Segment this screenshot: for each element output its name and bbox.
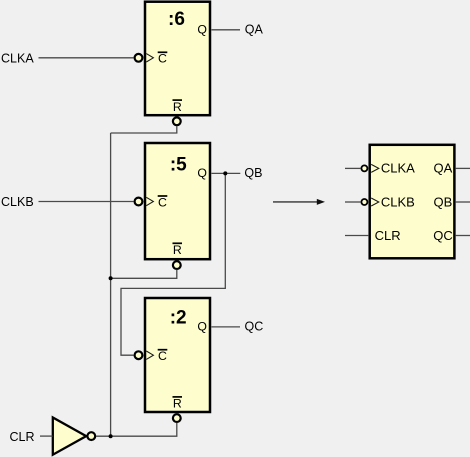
symbol pin QA label <box>434 161 453 176</box>
svg-text:QB: QB <box>244 166 262 180</box>
wire symbol CLKA input <box>345 167 361 169</box>
symbol pin QC label <box>433 228 453 243</box>
wire CLKB to :5 clock <box>39 201 134 203</box>
wire symbol QB output <box>456 201 470 203</box>
label CLKA <box>1 51 34 65</box>
flip-flop :2 label <box>170 308 187 329</box>
svg-text:R: R <box>173 243 182 257</box>
symbol pin CLKA label <box>371 161 415 176</box>
flip-flop :2 pin R label <box>173 397 183 411</box>
flip-flop :2 clock input bubble <box>135 351 143 359</box>
svg-text::6: :6 <box>168 9 185 30</box>
symbol CLKA input bubble <box>361 165 367 171</box>
label QB <box>244 166 262 180</box>
label CLKB <box>1 195 34 209</box>
svg-text:QC: QC <box>245 320 264 334</box>
svg-text:QC: QC <box>433 228 453 243</box>
flip-flop :5 label <box>170 155 187 176</box>
svg-text:CLR: CLR <box>375 228 401 243</box>
flip-flop :5 pin R label <box>173 243 183 257</box>
wire CLKA to :6 clock <box>39 57 134 59</box>
wire CLR to inverter input <box>40 435 53 437</box>
junction dot CLR net at inverter output <box>109 434 113 438</box>
symbol pin QB label <box>434 194 453 209</box>
junction dot QB node <box>223 171 227 175</box>
label CLR <box>10 430 35 444</box>
label QA <box>245 22 264 36</box>
wire CLR net vertical <box>110 133 112 436</box>
svg-text:Q: Q <box>197 23 207 37</box>
wire symbol CLKB input <box>345 201 361 203</box>
svg-text:CLKA: CLKA <box>381 161 415 176</box>
wire symbol QA output <box>456 167 470 169</box>
wire :5 reset stem to CLR net <box>111 270 177 279</box>
svg-text:CLR: CLR <box>10 430 35 444</box>
symbol CLKB input bubble <box>361 199 367 205</box>
inverter U4 output bubble <box>87 432 95 440</box>
flip-flop :2 pin C label (inverted clock) <box>146 349 167 363</box>
flip-flop :2 reset bubble <box>173 414 181 422</box>
flip-flop :6 pin Q label <box>197 23 207 37</box>
svg-text:R: R <box>173 397 182 411</box>
svg-text:CLKB: CLKB <box>381 194 415 209</box>
flip-flop :6 reset bubble <box>173 117 181 125</box>
flip-flop :6 pin R label <box>173 100 183 114</box>
flip-flop :6 label <box>168 9 185 30</box>
svg-text:Q: Q <box>197 166 207 180</box>
svg-text:QA: QA <box>245 22 264 36</box>
junction dot CLR net at :5 reset <box>109 276 113 280</box>
flip-flop :5 pin C label (inverted clock) <box>146 195 167 209</box>
wire :6 reset stem and run to CLR net <box>111 126 177 133</box>
svg-text:R: R <box>173 100 182 114</box>
symbol pin CLR label <box>375 228 401 243</box>
flip-flop :5 reset bubble <box>173 261 181 269</box>
wire :5 Q to QB <box>212 172 241 174</box>
flip-flop :6 clock input bubble <box>135 54 143 62</box>
symbol pin CLKB label <box>371 194 415 209</box>
svg-text:CLKB: CLKB <box>1 195 34 209</box>
flip-flop :5 body <box>145 143 210 259</box>
wire :2 Q to QC <box>212 326 241 328</box>
svg-text:Q: Q <box>197 320 207 334</box>
svg-text::2: :2 <box>170 308 187 329</box>
wire QB feedback to :2 clock <box>121 173 225 355</box>
flip-flop :6 body <box>145 2 210 116</box>
svg-text:QA: QA <box>434 161 453 176</box>
svg-text:C: C <box>158 195 167 209</box>
flip-flop :5 clock input bubble <box>135 198 143 206</box>
flip-flop :2 pin Q label <box>197 320 207 334</box>
svg-text:C: C <box>158 52 167 66</box>
label QC <box>245 320 264 334</box>
counter block symbol body <box>370 145 455 258</box>
wire :6 Q to QA <box>212 29 241 31</box>
wire inverter output to :2 reset <box>96 423 177 437</box>
inverter U4 (CLR buffer) <box>53 418 86 455</box>
wire symbol CLR input <box>345 235 369 237</box>
flip-flop :6 pin C label (inverted clock) <box>146 52 167 66</box>
svg-text::5: :5 <box>170 155 187 176</box>
wire symbol QC output <box>456 235 470 237</box>
flip-flop :2 body <box>145 298 210 412</box>
svg-text:C: C <box>158 349 167 363</box>
svg-text:CLKA: CLKA <box>1 51 34 65</box>
flip-flop :5 pin Q label <box>197 166 207 180</box>
svg-text:QB: QB <box>434 194 453 209</box>
arrow (schematic to symbol) <box>273 199 325 205</box>
